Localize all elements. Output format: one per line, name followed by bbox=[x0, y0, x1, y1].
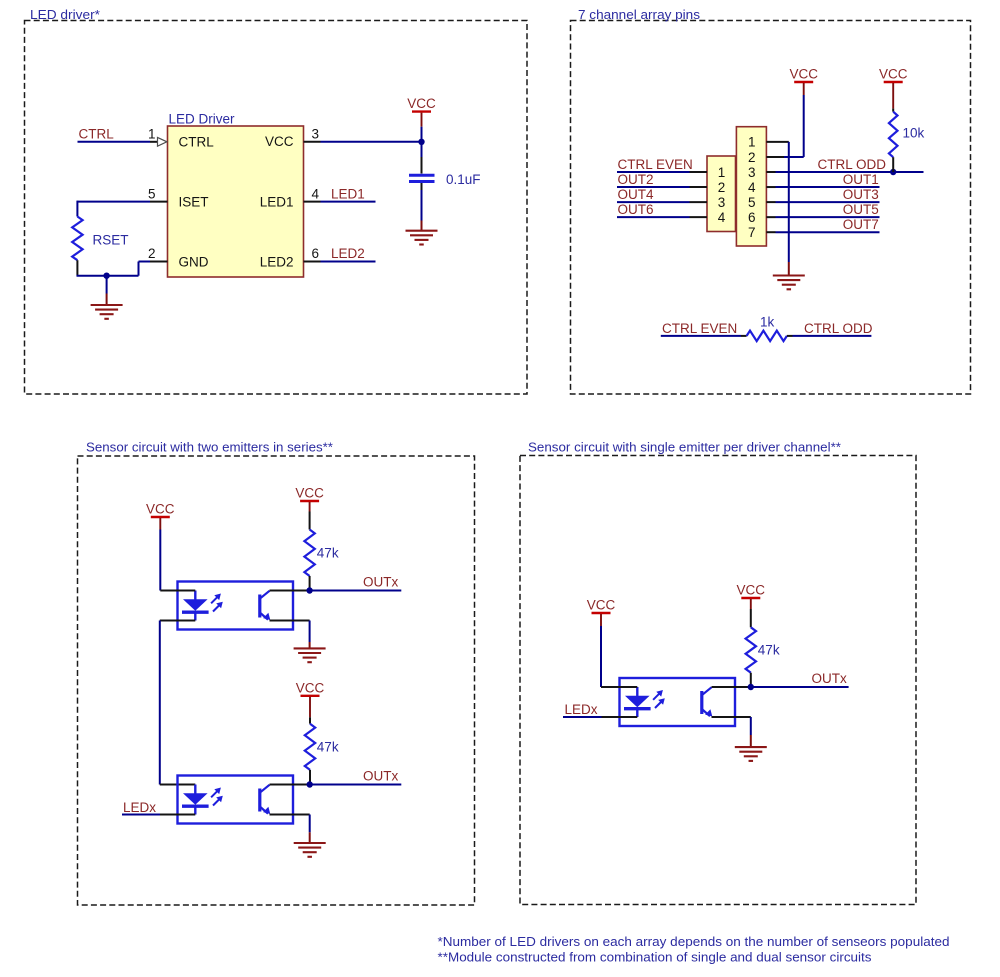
svg-text:4: 4 bbox=[718, 210, 726, 225]
svg-text:LED driver*: LED driver* bbox=[30, 7, 100, 22]
svg-text:Sensor circuit with two emitte: Sensor circuit with two emitters in seri… bbox=[86, 440, 333, 455]
svg-text:OUT4: OUT4 bbox=[618, 187, 654, 202]
svg-text:3: 3 bbox=[748, 165, 756, 180]
svg-text:CTRL ODD: CTRL ODD bbox=[804, 321, 873, 336]
net label LEDx (single) bbox=[565, 702, 598, 717]
svg-text:*Number of LED drivers on each: *Number of LED drivers on each array dep… bbox=[438, 934, 950, 949]
svg-text:2: 2 bbox=[148, 246, 156, 261]
net label OUT4 bbox=[618, 187, 654, 202]
svg-text:47k: 47k bbox=[317, 739, 339, 754]
svg-text:0.1uF: 0.1uF bbox=[446, 172, 481, 187]
svg-text:47k: 47k bbox=[758, 642, 780, 657]
wire OUT3 from J1 pin 5 bbox=[766, 201, 879, 203]
svg-text:VCC: VCC bbox=[296, 680, 325, 695]
wire VCC pin 3 bbox=[304, 141, 422, 143]
capacitor C1 0.1uF bbox=[409, 142, 481, 221]
opto sensor U3 (bottom) bbox=[178, 776, 294, 824]
wire U3 emitter to ground bbox=[270, 815, 310, 833]
svg-text:VCC: VCC bbox=[265, 134, 294, 149]
ground below U2 bbox=[294, 642, 326, 662]
svg-text:6: 6 bbox=[748, 210, 756, 225]
wire LEDx into U4 cathode bbox=[563, 716, 637, 718]
IC U1 pin names bbox=[179, 134, 294, 269]
net label OUT3 bbox=[843, 187, 879, 202]
resistor R4 47k (top) bbox=[304, 512, 338, 591]
wire VCC into U2 anode bbox=[160, 590, 195, 592]
wire CTRL EVEN (1k link) bbox=[661, 335, 747, 337]
wire LED1 pin 4 bbox=[304, 201, 376, 203]
IC U1 LED Driver body bbox=[168, 112, 304, 278]
svg-text:ISET: ISET bbox=[179, 195, 209, 210]
resistor R3 1k bbox=[747, 314, 787, 341]
net label OUT2 bbox=[618, 172, 654, 187]
svg-text:LED2: LED2 bbox=[260, 255, 294, 270]
wire OUT1 from J1 pin 4 bbox=[766, 186, 879, 188]
wire U2 emitter to ground bbox=[270, 621, 310, 643]
wire LEDx into U3 cathode bbox=[122, 814, 195, 816]
7 channel array pins dashed frame bbox=[571, 21, 971, 395]
svg-text:1k: 1k bbox=[760, 314, 775, 329]
wire CTRL ODD (1k link) bbox=[787, 335, 872, 337]
svg-text:VCC: VCC bbox=[146, 502, 175, 517]
svg-text:1: 1 bbox=[748, 135, 756, 150]
connector J1 7-pin body bbox=[736, 127, 766, 246]
junction OUTx (single) bbox=[748, 684, 754, 690]
wire U2 cathode to U3 anode (series link) bbox=[160, 621, 196, 785]
net label OUT6 bbox=[618, 202, 654, 217]
svg-text:CTRL EVEN: CTRL EVEN bbox=[662, 321, 737, 336]
wire J1 pin 2 to VCC rail bbox=[766, 156, 803, 158]
resistor R2 10k bbox=[889, 109, 925, 172]
svg-text:OUT6: OUT6 bbox=[618, 202, 654, 217]
svg-text:VCC: VCC bbox=[879, 67, 908, 82]
svg-text:4: 4 bbox=[748, 180, 756, 195]
svg-text:7 channel array pins: 7 channel array pins bbox=[578, 7, 701, 22]
junction OUTx (bottom) bbox=[307, 781, 313, 787]
footnote 1 bbox=[438, 934, 950, 949]
svg-text:10k: 10k bbox=[903, 126, 925, 141]
net label OUT1 bbox=[843, 172, 879, 187]
ground below U4 bbox=[735, 735, 767, 761]
wire GND pin 2 bbox=[77, 262, 168, 276]
svg-text:LED1: LED1 bbox=[260, 195, 294, 210]
svg-text:CTRL ODD: CTRL ODD bbox=[817, 157, 886, 172]
svg-text:LEDx: LEDx bbox=[565, 702, 598, 717]
svg-text:1: 1 bbox=[148, 126, 156, 141]
svg-text:VCC: VCC bbox=[587, 598, 616, 613]
net label CTRL EVEN bbox=[618, 157, 693, 172]
svg-text:OUTx: OUTx bbox=[363, 574, 398, 589]
wire CTRL EVEN to J2 pin 1 bbox=[617, 171, 707, 173]
svg-text:4: 4 bbox=[312, 186, 320, 201]
title: LED driver* bbox=[30, 7, 100, 22]
svg-text:CTRL: CTRL bbox=[79, 127, 115, 142]
net label OUTx (single) bbox=[812, 671, 847, 686]
net label CTRL ODD (1k link) bbox=[804, 321, 873, 336]
wire CTRL to pin 1 bbox=[78, 141, 158, 143]
svg-text:3: 3 bbox=[718, 195, 726, 210]
power symbol VCC over J1 pin 2 bbox=[789, 67, 818, 157]
svg-text:OUT5: OUT5 bbox=[843, 202, 879, 217]
single sensor circuit dashed frame bbox=[520, 456, 916, 905]
svg-text:OUTx: OUTx bbox=[363, 768, 398, 783]
svg-text:LED1: LED1 bbox=[331, 186, 365, 201]
power symbol VCC over 47k (single) bbox=[737, 583, 766, 610]
wire U3 collector to OUTx bbox=[270, 784, 402, 786]
ground below U3 bbox=[294, 832, 326, 857]
net label OUTx (bottom) bbox=[363, 768, 398, 783]
net label OUTx (top) bbox=[363, 574, 398, 589]
svg-text:RSET: RSET bbox=[93, 233, 129, 248]
junction OUTx (top) bbox=[306, 587, 312, 593]
svg-text:LEDx: LEDx bbox=[123, 800, 156, 815]
title: 7 channel array pins bbox=[578, 7, 701, 22]
wire CTRL ODD from J1 pin 3 bbox=[766, 171, 923, 173]
svg-text:6: 6 bbox=[312, 246, 320, 261]
wire U4 emitter to ground bbox=[712, 717, 751, 735]
wire U2 collector to OUTx bbox=[270, 590, 402, 592]
wire LED2 pin 6 bbox=[304, 261, 376, 263]
svg-text:VCC: VCC bbox=[407, 96, 436, 111]
power symbol VCC over 47k (top) bbox=[295, 486, 324, 512]
wire U4 collector to OUTx bbox=[712, 686, 849, 688]
svg-text:OUT7: OUT7 bbox=[843, 217, 879, 232]
svg-text:OUTx: OUTx bbox=[812, 671, 847, 686]
resistor RSET bbox=[72, 217, 128, 276]
wire OUT6 to J2 pin 4 bbox=[617, 216, 707, 218]
power symbol VCC over 10k bbox=[879, 67, 908, 109]
svg-text:5: 5 bbox=[748, 195, 756, 210]
net label OUT7 bbox=[843, 217, 879, 232]
resistor R5 47k (bottom) bbox=[305, 717, 339, 784]
power symbol VCC (top-left block) bbox=[407, 96, 436, 142]
net label LED1 bbox=[331, 186, 365, 201]
LED driver block dashed frame bbox=[25, 21, 528, 395]
input arrow on pin 1 bbox=[158, 137, 167, 146]
net label CTRL bbox=[79, 127, 115, 142]
svg-text:VCC: VCC bbox=[789, 67, 818, 82]
wire VCC into U4 anode bbox=[601, 686, 637, 688]
footnote 2 bbox=[438, 950, 873, 965]
connector J2 4-pin body bbox=[707, 156, 736, 232]
svg-text:2: 2 bbox=[718, 180, 726, 195]
resistor R6 47k (single) bbox=[746, 609, 780, 687]
power symbol VCC (single sensor, left) bbox=[587, 598, 616, 688]
svg-text:CTRL: CTRL bbox=[179, 135, 215, 150]
ground below J1 pin 1 bbox=[773, 262, 805, 289]
svg-text:LED Driver: LED Driver bbox=[169, 112, 236, 127]
title: Sensor circuit with two emitters in series** bbox=[86, 440, 333, 455]
wire OUT5 from J1 pin 6 bbox=[766, 216, 879, 218]
svg-text:GND: GND bbox=[179, 255, 209, 270]
svg-text:Sensor circuit with single emi: Sensor circuit with single emitter per d… bbox=[528, 440, 841, 455]
svg-text:OUT2: OUT2 bbox=[618, 172, 654, 187]
net label LEDx (dual) bbox=[123, 800, 156, 815]
svg-text:1: 1 bbox=[718, 165, 726, 180]
ground below capacitor bbox=[406, 221, 438, 245]
svg-text:OUT1: OUT1 bbox=[843, 172, 879, 187]
opto sensor U2 (top) bbox=[178, 582, 294, 630]
svg-text:LED2: LED2 bbox=[331, 246, 365, 261]
svg-text:47k: 47k bbox=[317, 545, 339, 560]
junction CTRL ODD / 10k bbox=[890, 169, 896, 175]
IC U1 pin numbers 1,5,2,3,4,6 bbox=[148, 126, 320, 261]
svg-text:**Module constructed from comb: **Module constructed from combination of… bbox=[438, 950, 873, 965]
svg-text:OUT3: OUT3 bbox=[843, 187, 879, 202]
power symbol VCC over 47k (bottom) bbox=[296, 680, 325, 717]
net label LED2 bbox=[331, 246, 365, 261]
power symbol VCC (dual sensor, left) bbox=[146, 502, 175, 591]
wire J1 pin 1 to ground rail bbox=[766, 142, 788, 262]
junction VCC node bbox=[418, 139, 424, 145]
title: Sensor circuit with single emitter per driver channel** bbox=[528, 440, 841, 455]
svg-text:2: 2 bbox=[748, 150, 756, 165]
wire OUT2 to J2 pin 2 bbox=[617, 186, 707, 188]
net label OUT5 bbox=[843, 202, 879, 217]
svg-text:CTRL EVEN: CTRL EVEN bbox=[618, 157, 693, 172]
junction at RSET/GND node bbox=[103, 273, 109, 279]
ground below RSET bbox=[91, 276, 123, 319]
svg-text:3: 3 bbox=[312, 126, 320, 141]
wire OUT7 from J1 pin 7 bbox=[766, 231, 879, 233]
opto sensor U4 bbox=[620, 678, 736, 726]
wire ISET pin 5 bbox=[77, 201, 167, 217]
wire OUT4 to J2 pin 3 bbox=[617, 201, 707, 203]
net label CTRL ODD bbox=[817, 157, 886, 172]
svg-text:7: 7 bbox=[748, 225, 756, 240]
dual sensor circuit dashed frame bbox=[78, 456, 475, 905]
svg-text:VCC: VCC bbox=[295, 486, 324, 501]
net label CTRL EVEN (1k link) bbox=[662, 321, 737, 336]
svg-text:5: 5 bbox=[148, 186, 156, 201]
svg-text:VCC: VCC bbox=[737, 583, 766, 598]
